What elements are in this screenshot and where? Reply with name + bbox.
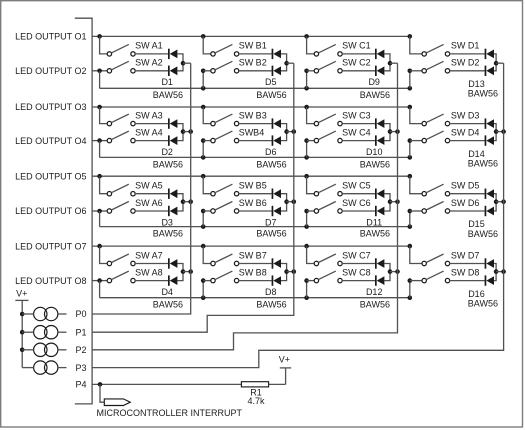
diode D1 lower half (BAW56) [168,66,177,76]
svg-text:BAW56: BAW56 [153,90,183,100]
wire: O3 drop to SW C3 [307,107,315,124]
svg-text:SW D3: SW D3 [451,110,480,120]
diode D13 upper half (BAW56) [485,49,494,59]
diode D5 lower half (BAW56) [272,66,281,76]
junction: O6 bus at column C [304,224,309,229]
wire: D2 common to column A line [183,131,191,133]
junction: O1 tap, column B [201,34,206,39]
wire: O8 riser, column D [409,281,411,298]
svg-text:P4: P4 [75,380,86,390]
svg-text:LED OUTPUT O7: LED OUTPUT O7 [15,241,86,251]
junction: D15 common node [494,199,499,204]
switch SW C8 [314,271,342,283]
switch SW D5 [422,184,450,196]
wire: O5 drop to SW C5 [307,176,315,194]
svg-text:BAW56: BAW56 [360,159,390,169]
svg-text:SW A4: SW A4 [135,127,163,137]
svg-text:BAW56: BAW56 [360,229,390,239]
wire: D2 lower anode to common [177,132,183,141]
junction: O3 tap, column D [408,105,413,110]
wire: SW D7 to diode D16 [450,263,485,265]
junction: column B line tap [292,199,297,204]
wire: feed to SW B2 [203,70,211,72]
junction: O2 riser top, column D [408,69,413,74]
diode D9 lower half (BAW56) [375,66,384,76]
wire: SW B7 to diode D8 [239,263,272,265]
current source symbol, port P3 [34,361,58,374]
diode D10 lower half (BAW56) [375,135,384,145]
wire: feed to SW C8 [307,280,315,282]
junction: D10 common node [388,129,393,134]
svg-text:D1: D1 [161,77,173,87]
wire: D15 common to column D line [496,201,504,203]
wire: O6 drop to bus, column A [99,211,101,227]
wire: SW B1 to diode D5 [239,53,272,55]
interrupt output flag symbol [104,399,130,406]
svg-text:LED OUTPUT O8: LED OUTPUT O8 [15,276,86,286]
wire: D14 upper anode to common [494,124,496,132]
wire: O7 drop to SW C7 [307,246,315,263]
junction: D12 common node [388,269,393,274]
wire: O8 row feed to SW A8 [92,280,107,282]
svg-text:BAW56: BAW56 [468,298,498,308]
wire: D12 upper anode to common [384,264,390,272]
junction: O2 at column A [97,69,102,74]
junction: D1 common node [181,61,186,66]
switch SW B5 [211,184,239,196]
junction: O4 riser top, column C [304,138,309,143]
diode D8 lower half (BAW56) [272,275,281,285]
wire: O7 drop to SW B7 [203,246,211,263]
junction: O2 bus at column C [304,86,309,91]
svg-text:LED OUTPUT O5: LED OUTPUT O5 [15,171,86,181]
svg-text:D15: D15 [468,219,485,229]
current source symbol, port P1 [34,326,58,339]
diode D8 upper half (BAW56) [272,258,281,268]
junction: column D line tap [501,199,506,204]
wire: D12 common to column C line [390,271,398,273]
switch SW B7 [211,254,239,266]
wire: feed to SW D8 [410,280,422,282]
diode D2 lower half (BAW56) [168,135,177,145]
junction: O4 riser top, column B [201,138,206,143]
diode D11 upper half (BAW56) [375,189,384,199]
wire: column D sense line to P3 [92,63,504,367]
switch SW D1 [422,44,450,56]
svg-text:SW C8: SW C8 [342,267,371,277]
diode D14 lower half (BAW56) [485,135,494,145]
wire: D15 lower anode to common [494,202,496,211]
wire: R1 up to V+ bar [285,368,287,385]
wire: O4 row bus [100,156,410,158]
junction: D13 common node [494,61,499,66]
svg-text:SW D4: SW D4 [451,127,480,137]
wire: D3 upper anode to common [177,194,183,202]
svg-text:D6: D6 [265,147,277,157]
wire: O6 row bus [100,226,410,228]
svg-text:SW C6: SW C6 [342,198,371,208]
svg-text:D8: D8 [265,287,277,297]
wire: O8 riser, column C [306,281,308,298]
svg-text:P1: P1 [75,327,86,337]
svg-text:SW A5: SW A5 [135,181,163,191]
wire: D4 lower anode to common [177,272,183,281]
svg-text:SW B7: SW B7 [239,250,267,260]
svg-text:D10: D10 [366,147,383,157]
svg-text:SW C7: SW C7 [342,250,371,260]
diode D3 lower half (BAW56) [168,206,177,216]
svg-text:SW C2: SW C2 [342,58,371,68]
junction: D6 common node [284,129,289,134]
svg-text:MICROCONTROLLER INTERRUPT: MICROCONTROLLER INTERRUPT [97,408,243,418]
wire: O5 drop to SW B5 [203,176,211,194]
svg-text:D3: D3 [161,217,173,227]
svg-text:LED OUTPUT O4: LED OUTPUT O4 [15,136,86,146]
wire: O2 drop to bus, column A [99,71,101,89]
wire: SW C8 to diode D12 [342,280,375,282]
switch SW A1 [107,44,135,56]
wire: P1 source lead [58,331,67,333]
diode D16 lower half (BAW56) [485,275,494,285]
svg-text:SW D8: SW D8 [451,267,480,277]
power symbol V+ bar [15,299,28,301]
wire: D6 lower anode to common [281,132,287,141]
wire: SW B6 to diode D7 [239,210,272,212]
svg-text:SW A7: SW A7 [135,250,163,260]
wire: V+ to P3 source [22,367,33,369]
wire: D16 lower anode to common [494,272,496,281]
wire: D10 lower anode to common [384,132,390,141]
junction: O8 riser top, column B [201,278,206,283]
svg-text:D9: D9 [368,77,380,87]
wire: O8 drop to bus, column A [99,281,101,298]
wire: D11 common to column C line [390,201,398,203]
wire: SW D8 to diode D16 [450,280,485,282]
wire: P0 source lead [58,313,67,315]
current source symbol, port P2 [34,343,58,356]
wire: SW C7 to diode D12 [342,263,375,265]
wire: P4 to interrupt flag [100,384,104,402]
svg-text:D11: D11 [366,217,382,227]
wire: D8 common to column B line [287,271,294,273]
junction: column D line tap [501,129,506,134]
switch SW A8 [107,271,135,283]
wire: SW B5 to diode D7 [239,193,272,195]
wire: SW A6 to diode D3 [135,210,168,212]
svg-text:LED OUTPUT O3: LED OUTPUT O3 [15,102,86,112]
switch SW C1 [314,44,342,56]
wire: R1 to V+ [269,383,286,385]
diode D6 upper half (BAW56) [272,118,281,128]
wire: D7 upper anode to common [281,194,287,202]
switch SW A6 [107,202,135,214]
wire: SW A5 to diode D3 [135,193,168,195]
wire: SW A4 to diode D2 [135,140,168,142]
svg-text:BAW56: BAW56 [256,300,286,310]
diode D10 upper half (BAW56) [375,118,384,128]
wire: D16 common to column D line [496,271,504,273]
junction: O7 tap, column C [304,244,309,249]
svg-text:BAW56: BAW56 [468,229,498,239]
junction: D2 common node [181,129,186,134]
junction: O7 tap, column A [97,244,102,249]
junction: D5 common node [284,61,289,66]
junction: O3 tap, column A [97,105,102,110]
diode D15 lower half (BAW56) [485,206,494,216]
junction: O1 tap, column C [304,34,309,39]
wire: D8 lower anode to common [281,272,287,281]
current source symbol, port P0 [34,307,58,320]
switch SW D3 [422,114,450,126]
svg-text:SW D1: SW D1 [451,41,480,51]
microcontroller boundary (right edge of MCU block) [75,18,92,404]
wire: feed to SW C2 [307,70,315,72]
wire: SW A2 to diode D1 [135,70,168,72]
wire: SW C5 to diode D11 [342,193,375,195]
wire: SW A1 to diode D1 [135,53,168,55]
diode D16 upper half (BAW56) [485,258,494,268]
junction: column C line tap [395,129,400,134]
wire: O8 row bus [100,297,410,299]
wire: D16 upper anode to common [494,264,496,272]
svg-text:D4: D4 [161,287,173,297]
wire: D12 lower anode to common [384,272,390,281]
diode D2 upper half (BAW56) [168,118,177,128]
svg-text:BAW56: BAW56 [153,300,183,310]
switch SW D8 [422,271,450,283]
junction: column B line tap [292,269,297,274]
switch SW D6 [422,202,450,214]
wire: column A sense line to P0 [92,63,191,314]
wire: feed to SW C4 [307,140,315,142]
svg-text:V+: V+ [279,355,290,365]
svg-text:SW A3: SW A3 [135,110,163,120]
wire: SW A8 to diode D4 [135,280,168,282]
junction: O4 riser top, column D [408,138,413,143]
svg-text:BAW56: BAW56 [468,158,498,168]
power symbol V+ bar (R1) [280,367,291,369]
junction: O4 at column A [97,138,102,143]
wire: column B sense line to P1 [92,63,294,332]
wire: V+ to P0 source [22,313,33,315]
svg-text:BAW56: BAW56 [256,229,286,239]
svg-text:SW A8: SW A8 [135,267,163,277]
junction: column C line tap [395,199,400,204]
junction: O2 riser top, column B [201,69,206,74]
junction: V+ rail at P1 source [20,330,25,335]
wire: SW C2 to diode D9 [342,70,375,72]
junction: D8 common node [284,269,289,274]
svg-text:SW D6: SW D6 [451,198,480,208]
svg-text:P3: P3 [75,363,86,373]
switch SW C3 [314,114,342,126]
wire: D1 lower anode to common [177,63,183,71]
switch SW B1 [211,44,239,56]
junction: D4 common node [181,269,186,274]
junction: O6 bus at column D [408,224,413,229]
wire: feed to SW C6 [307,210,315,212]
wire: O4 row feed to SW A4 [92,140,107,142]
wire: D3 common to column A line [183,201,191,203]
switch SW A7 [107,254,135,266]
svg-text:D5: D5 [265,77,277,87]
wire: O6 riser, column C [306,211,308,227]
junction: O6 riser top, column B [201,209,206,214]
junction: O6 bus at column B [201,224,206,229]
wire: O5 row rail [92,175,410,177]
wire: SW B4 to diode D6 [239,140,272,142]
wire: O2 riser, column C [306,71,308,89]
svg-text:LED OUTPUT O1: LED OUTPUT O1 [15,32,86,42]
diode D15 upper half (BAW56) [485,189,494,199]
switch SW B2 [211,61,239,73]
junction: O5 tap, column C [304,174,309,179]
wire: SW B8 to diode D8 [239,280,272,282]
wire: D9 upper anode to common [384,54,390,63]
diode D1 upper half (BAW56) [168,49,177,59]
svg-text:BAW56: BAW56 [468,89,498,99]
junction: D9 common node [388,61,393,66]
wire: P3 source lead [58,367,67,369]
wire: D9 common to column C line [390,62,398,64]
wire: O5 drop to SW D5 [410,176,422,194]
diode D6 lower half (BAW56) [272,135,281,145]
junction: O5 tap, column D [408,174,413,179]
wire: O1 drop to SW A1 [100,36,108,54]
wire: D13 upper anode to common [494,54,496,63]
svg-text:D16: D16 [468,289,485,299]
wire: O4 riser, column B [202,141,204,158]
wire: feed to SW B4 [203,140,211,142]
svg-text:SW C5: SW C5 [342,181,371,191]
junction: V+ rail at P2 source [20,348,25,353]
junction: O8 riser top, column C [304,278,309,283]
svg-text:SW A2: SW A2 [135,58,163,68]
svg-text:SW B2: SW B2 [239,58,267,68]
junction: O2 bus at column D [408,86,413,91]
svg-text:SW D2: SW D2 [451,58,480,68]
switch SW A4 [107,131,135,143]
svg-text:SW B6: SW B6 [239,198,267,208]
wire: feed to SW D4 [410,140,422,142]
wire: D14 common to column D line [496,131,504,133]
wire: D3 lower anode to common [177,202,183,211]
svg-text:BAW56: BAW56 [153,229,183,239]
wire: P4 line to R1 [92,383,241,385]
wire: D15 upper anode to common [494,194,496,202]
svg-text:LED OUTPUT O2: LED OUTPUT O2 [15,66,86,76]
wire: D13 common to column D line [496,62,504,64]
wire: O2 riser, column B [202,71,204,89]
wire: D1 common to column A line [183,62,191,64]
wire: V+ to P1 source [22,331,33,333]
diode D4 lower half (BAW56) [168,275,177,285]
switch SW A3 [107,114,135,126]
wire: feed to SW D2 [410,70,422,72]
svg-text:SW C4: SW C4 [342,127,371,137]
junction: D14 common node [494,129,499,134]
svg-text:BAW56: BAW56 [256,90,286,100]
wire: O3 drop to SW A3 [100,107,108,124]
junction: O6 riser top, column C [304,209,309,214]
svg-text:V+: V+ [16,289,27,299]
wire: O6 row feed to SW A6 [92,210,107,212]
diode D12 upper half (BAW56) [375,258,384,268]
wire: feed to SW B6 [203,210,211,212]
wire: SW C3 to diode D10 [342,123,375,125]
svg-text:LED OUTPUT O6: LED OUTPUT O6 [15,206,86,216]
junction: O5 tap, column B [201,174,206,179]
junction: O4 bus at column C [304,155,309,160]
junction: O7 tap, column D [408,244,413,249]
wire: O4 riser, column C [306,141,308,158]
svg-text:SW B1: SW B1 [239,41,267,51]
diode D13 lower half (BAW56) [485,66,494,76]
diode D11 lower half (BAW56) [375,206,384,216]
wire: D7 common to column B line [287,201,294,203]
junction: O1 tap, column D [408,34,413,39]
wire: SW B2 to diode D5 [239,70,272,72]
wire: SW B3 to diode D6 [239,123,272,125]
wire: O2 row feed to SW A2 [92,70,107,72]
wire: SW D3 to diode D14 [450,123,485,125]
wire: SW A3 to diode D2 [135,123,168,125]
wire: P2 source lead [58,349,67,351]
wire: D5 common to column B line [287,62,294,64]
wire: O4 drop to bus, column A [99,141,101,158]
wire: feed to SW B8 [203,280,211,282]
wire: D11 upper anode to common [384,194,390,202]
wire: O7 row rail [92,245,410,247]
diode D3 upper half (BAW56) [168,189,177,199]
junction: O8 bus at column B [201,295,206,300]
switch SW C6 [314,202,342,214]
svg-text:SW B3: SW B3 [239,110,267,120]
junction: V+ rail at P0 source [20,312,25,317]
wire: SW C4 to diode D10 [342,140,375,142]
junction: O4 bus at column B [201,155,206,160]
svg-text:D2: D2 [161,147,173,157]
switch SW B3 [211,114,239,126]
wire: D14 lower anode to common [494,132,496,141]
svg-text:4.7k: 4.7k [247,396,265,406]
svg-text:D13: D13 [468,79,485,89]
switch SW B8 [211,271,239,283]
wire: D9 lower anode to common [384,63,390,71]
junction: column A line tap [188,129,193,134]
wire: SW D4 to diode D14 [450,140,485,142]
wire: D2 upper anode to common [177,124,183,132]
switch SW C5 [314,184,342,196]
switch SW A2 [107,61,135,73]
wire: O7 drop to SW D7 [410,246,422,263]
svg-text:P0: P0 [75,309,86,319]
wire: O6 riser, column B [202,211,204,227]
wire: O5 drop to SW A5 [100,176,108,194]
junction: column C line tap [395,269,400,274]
wire: O6 riser, column D [409,211,411,227]
junction: column B line tap [292,129,297,134]
junction: O4 bus at column D [408,155,413,160]
wire: SW C1 to diode D9 [342,53,375,55]
wire: D8 upper anode to common [281,264,287,272]
svg-text:SW D5: SW D5 [451,181,480,191]
junction: D7 common node [284,199,289,204]
junction: O6 riser top, column D [408,209,413,214]
wire: D1 upper anode to common [177,54,183,63]
switch SW C4 [314,131,342,143]
switch SW A5 [107,184,135,196]
